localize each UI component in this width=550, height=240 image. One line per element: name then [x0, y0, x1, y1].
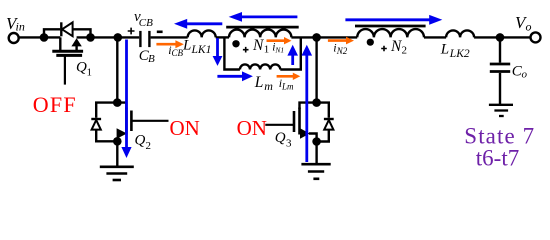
svg-text:m: m — [264, 79, 273, 93]
svg-text:CB: CB — [172, 48, 184, 58]
svg-text:Q: Q — [76, 60, 87, 76]
svg-text:2: 2 — [402, 45, 408, 57]
svg-text:1: 1 — [87, 67, 93, 79]
svg-text:ON: ON — [170, 116, 200, 140]
svg-text:OFF: OFF — [33, 92, 77, 117]
svg-text:o: o — [522, 69, 528, 81]
svg-text:ON: ON — [237, 116, 267, 140]
svg-text:2: 2 — [146, 140, 152, 152]
svg-text:B: B — [148, 53, 155, 65]
svg-text:3: 3 — [286, 137, 292, 149]
svg-text:t6-t7: t6-t7 — [476, 146, 519, 171]
svg-text:LK1: LK1 — [191, 44, 212, 56]
svg-text:N2: N2 — [336, 46, 348, 56]
svg-text:CB: CB — [139, 17, 153, 29]
svg-text:LK2: LK2 — [449, 48, 470, 60]
svg-text:1: 1 — [264, 44, 270, 56]
svg-text:N1: N1 — [274, 46, 284, 55]
svg-text:Q: Q — [275, 130, 286, 146]
svg-text:Lm: Lm — [281, 81, 294, 91]
svg-text:in: in — [16, 20, 25, 34]
svg-text:L: L — [440, 41, 449, 57]
svg-text:Q: Q — [135, 133, 146, 149]
svg-text:L: L — [182, 37, 191, 53]
svg-text:o: o — [526, 20, 532, 34]
svg-text:L: L — [254, 74, 264, 91]
